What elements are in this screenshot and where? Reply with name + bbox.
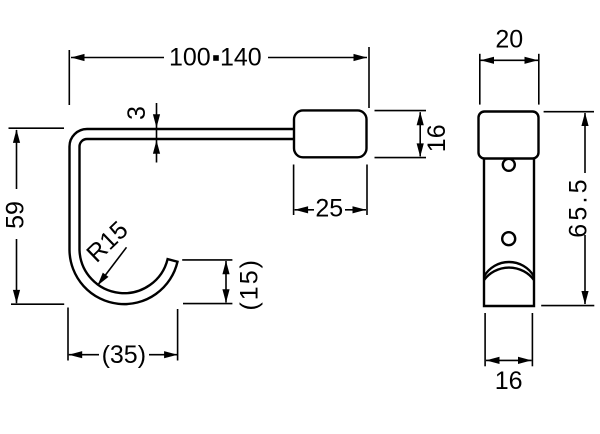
- dimension 65.5 top extension line: [544, 111, 594, 113]
- svg-text:16: 16: [495, 367, 523, 395]
- dimension 16 line (front view): [486, 359, 532, 361]
- dimension 59 top arrowhead: [13, 129, 20, 143]
- svg-text:20: 20: [495, 26, 523, 54]
- dimension 16 top arrowhead (block): [417, 112, 424, 126]
- svg-text:16: 16: [423, 124, 451, 152]
- svg-text:(35): (35): [102, 341, 146, 369]
- dimension 20 left arrowhead: [481, 57, 495, 64]
- svg-text:(15): (15): [235, 258, 263, 310]
- dimension 65.5 bottom extension line: [541, 305, 594, 307]
- dimension (35) left arrowhead: [69, 351, 83, 358]
- dimension 25 right extension line: [366, 165, 368, 216]
- dimension (15) bottom arrowhead: [222, 289, 229, 303]
- svg-text:R15: R15: [81, 216, 133, 268]
- radius leader line R15: [98, 247, 127, 285]
- front view middle screw hole: [502, 232, 515, 245]
- dimension 25 left arrowhead: [295, 206, 309, 213]
- dimension 16 top extension line (block): [375, 110, 427, 112]
- dimension 59 bottom arrowhead: [13, 290, 20, 304]
- dimension 25 right arrowhead: [353, 206, 367, 213]
- dimension (15) top arrowhead: [222, 261, 229, 275]
- dimension 16 right arrowhead (front view): [518, 357, 532, 364]
- front view head (rounded cap): [479, 112, 539, 159]
- dimension middle dot: [213, 55, 219, 61]
- dimension 65.5 line upper segment: [584, 113, 586, 173]
- dimension 16 left extension line (front view): [484, 313, 486, 366]
- dimension 100·140 extension line left: [68, 50, 70, 105]
- dimension 100·140 extension line right: [368, 47, 370, 108]
- svg-text:3: 3: [123, 106, 151, 120]
- dimension 16 line (block): [419, 112, 421, 156]
- dimension 16 left arrowhead (front view): [486, 357, 500, 364]
- svg-text:65.5: 65.5: [565, 176, 593, 237]
- dimension 16 right extension line (front view): [531, 313, 533, 366]
- dimension (35) line left segment: [69, 354, 99, 356]
- dimension (15) bottom extension line: [183, 303, 232, 305]
- dimension 20 right arrowhead: [525, 57, 539, 64]
- dimension (15) top extension line: [182, 259, 232, 261]
- dimension 3 lower arrowhead: [153, 140, 160, 154]
- dimension 20 right extension line: [538, 54, 540, 105]
- dimension 25 line left segment: [295, 209, 314, 211]
- dimension 100·140 line right segment: [268, 57, 367, 59]
- dimension 25 line right segment: [345, 209, 366, 211]
- dimension (15) line: [225, 261, 227, 303]
- front view hook bend inner arc: [484, 268, 534, 280]
- svg-text:100: 100: [169, 44, 211, 72]
- dimension 59 line upper segment: [16, 130, 18, 189]
- dimension 16 bottom extension line (block): [375, 157, 427, 159]
- dimension 20 left extension line: [479, 54, 481, 105]
- dimension (35) line right segment: [149, 354, 178, 356]
- dimension 100·140 left arrowhead: [71, 54, 85, 61]
- dimension 100·140 line left segment: [71, 57, 164, 59]
- dimension (35) left extension line: [67, 308, 69, 361]
- dimension 59 bottom extension line: [11, 303, 64, 305]
- hook side view outline (J-hook bar): [70, 129, 296, 304]
- svg-text:25: 25: [315, 195, 343, 223]
- front view body: [484, 159, 534, 307]
- dimension 3 upper arrow line: [156, 103, 158, 163]
- dimension 59 top extension line: [9, 127, 65, 129]
- dimension 25 left extension line: [293, 165, 295, 216]
- dimension 59 line lower segment: [16, 239, 18, 303]
- mounting block side view: [294, 110, 367, 157]
- dimension 100·140 right arrowhead: [354, 54, 368, 61]
- dimension 65.5 line lower segment: [584, 235, 586, 304]
- dimension (35) right extension line: [177, 309, 179, 361]
- front view hook bend outer arc: [484, 262, 534, 277]
- svg-text:59: 59: [2, 201, 30, 229]
- radius leader arrowhead: [98, 273, 109, 286]
- svg-text:140: 140: [220, 44, 262, 72]
- dimension 3 upper arrowhead: [153, 114, 160, 128]
- dimension 65.5 bottom arrowhead: [581, 291, 588, 305]
- front view top screw hole: [503, 159, 515, 171]
- dimension 16 bottom arrowhead (block): [417, 143, 424, 157]
- dimension 65.5 top arrowhead: [581, 113, 588, 127]
- dimension (35) right arrowhead: [164, 351, 178, 358]
- dimension 20 line: [481, 59, 539, 61]
